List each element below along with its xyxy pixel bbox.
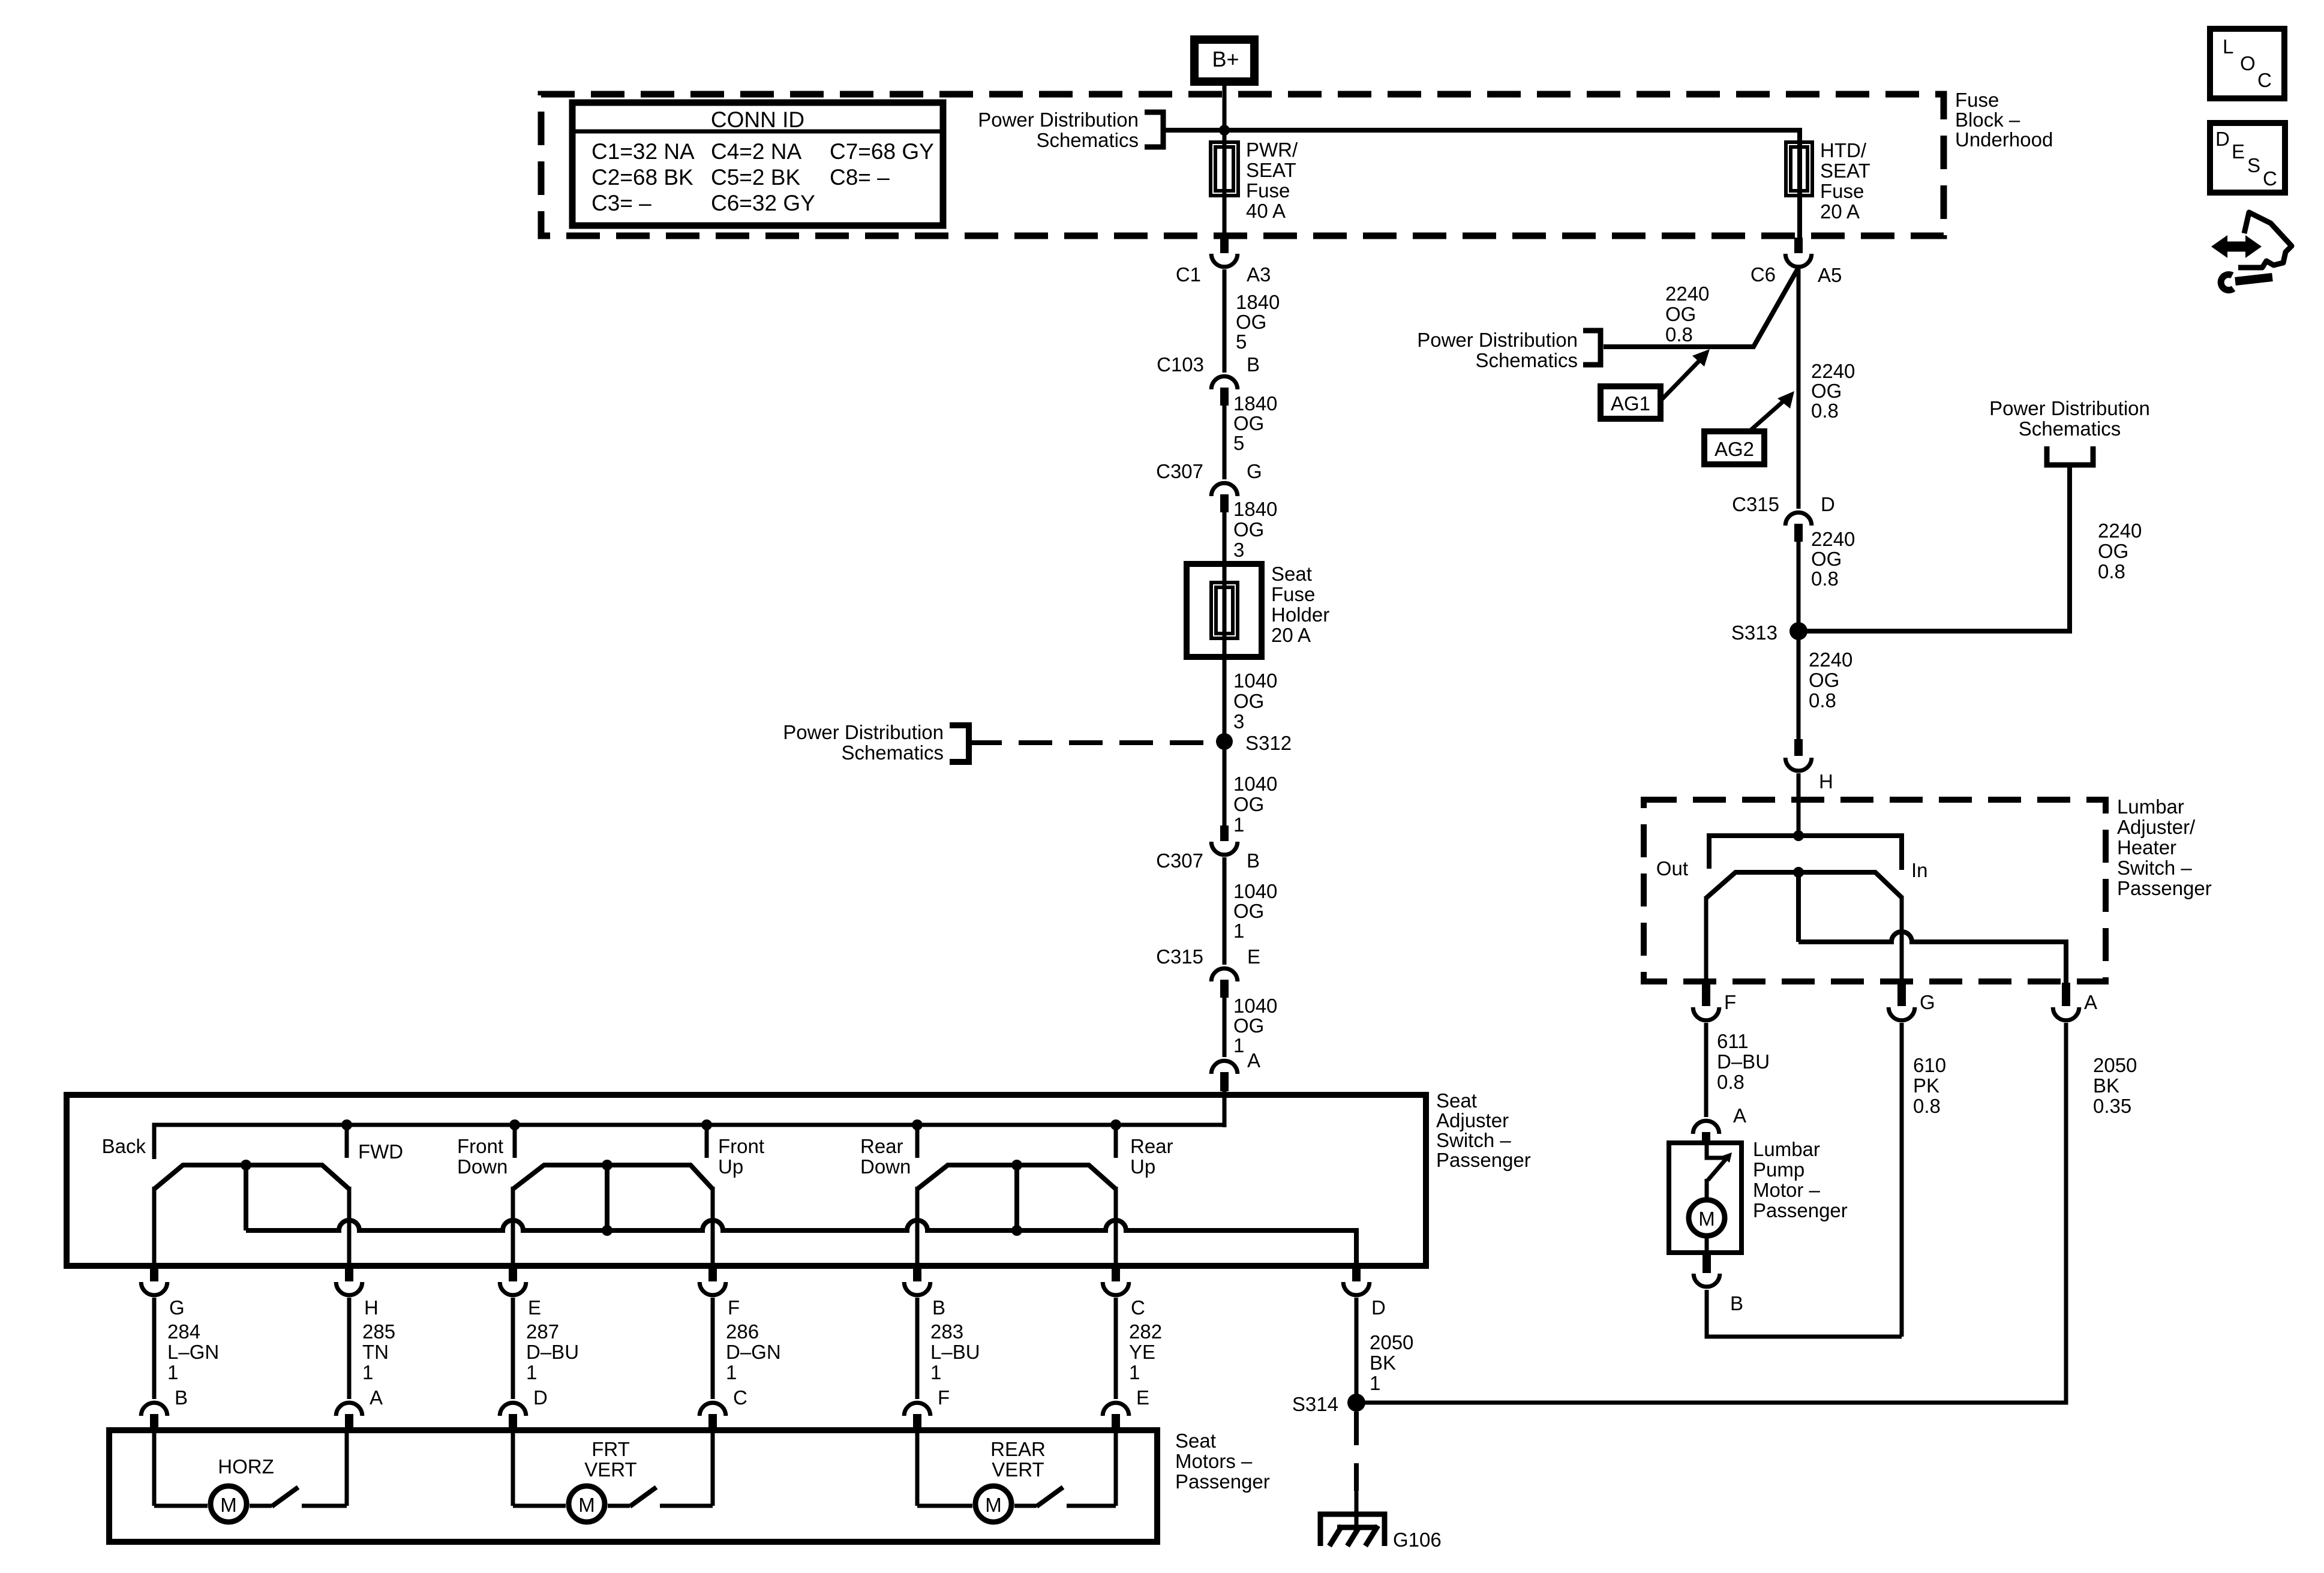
wire 286 D-GN 1 (711, 1298, 715, 1399)
svg-text:D–BU: D–BU (1717, 1050, 1770, 1073)
connector pin A below lumbar switch (2062, 983, 2070, 1006)
svg-text:Up: Up (718, 1155, 743, 1178)
motor HORZ (152, 1431, 157, 1506)
svg-text:C8= –: C8= – (830, 165, 890, 190)
svg-text:0.8: 0.8 (2098, 560, 2125, 583)
connector C307 pin G (1211, 483, 1238, 496)
wire branch S313 to power distribution (right) (1798, 466, 2070, 631)
connector C1 pin A3 (1220, 238, 1229, 253)
connector pin H below switch box (345, 1266, 353, 1281)
svg-text:40 A: 40 A (1246, 200, 1286, 222)
svg-text:Up: Up (1130, 1155, 1155, 1178)
contact stub Front Up (701, 1119, 712, 1130)
svg-text:0.8: 0.8 (1913, 1095, 1941, 1117)
wire 2050 BK 0.35 (A to S314) (1356, 1023, 2066, 1403)
svg-text:285: 285 (362, 1320, 395, 1343)
bracket Power Distribution Schematics (AG1) (1583, 331, 1601, 365)
svg-text:2050: 2050 (1370, 1331, 1413, 1353)
svg-text:20 A: 20 A (1820, 200, 1860, 223)
svg-text:Schematics: Schematics (1036, 129, 1139, 151)
svg-text:286: 286 (726, 1320, 759, 1343)
svg-text:TN: TN (362, 1341, 389, 1363)
wire 1840 OG 3 (C307 to fuse holder) (1223, 512, 1227, 744)
svg-text:OG: OG (1233, 690, 1264, 712)
svg-text:C6=32 GY: C6=32 GY (711, 191, 815, 215)
seat adjuster switch box (67, 1095, 1426, 1266)
wire bridge left leg to pin E (511, 1187, 515, 1266)
svg-text:C103: C103 (1157, 353, 1204, 376)
svg-text:Passenger: Passenger (1753, 1199, 1848, 1221)
svg-text:1: 1 (726, 1361, 737, 1383)
svg-text:OG: OG (2098, 540, 2128, 562)
svg-text:0.35: 0.35 (2093, 1095, 2131, 1117)
svg-text:C: C (733, 1386, 747, 1409)
connector C307 pin B (second) (1220, 825, 1229, 841)
svg-text:PWR/: PWR/ (1246, 139, 1298, 161)
wire 1040 OG 1 (S312 to C307) (1223, 742, 1227, 825)
svg-text:2240: 2240 (1811, 528, 1855, 550)
svg-text:0.8: 0.8 (1811, 568, 1839, 590)
svg-text:F: F (1724, 991, 1736, 1013)
svg-text:C7=68 GY: C7=68 GY (830, 139, 934, 164)
svg-text:5: 5 (1233, 432, 1244, 454)
connector pin C into seat motors box (699, 1403, 726, 1416)
svg-text:AG2: AG2 (1715, 438, 1754, 460)
wire feed from Power Distribution to HTD/SEAT fuse (1163, 130, 1800, 238)
wire 287 D-BU 1 (511, 1298, 515, 1399)
svg-text:284: 284 (167, 1320, 200, 1343)
svg-text:OG: OG (1233, 1014, 1264, 1037)
svg-text:C1: C1 (1176, 263, 1201, 286)
svg-text:A3: A3 (1247, 263, 1271, 286)
svg-text:B: B (1730, 1292, 1743, 1314)
connector pin F into seat motors box (904, 1403, 930, 1416)
seat motors box (109, 1430, 1157, 1542)
seat fuse holder box 20 A (1187, 564, 1262, 657)
wire bridge left leg to pin G (152, 1187, 157, 1266)
svg-text:Switch –: Switch – (1436, 1129, 1511, 1151)
wire 282 YE 1 (1114, 1298, 1118, 1399)
svg-text:G106: G106 (1393, 1529, 1442, 1551)
svg-text:C1=32 NA: C1=32 NA (591, 139, 695, 164)
connector pin C below switch box (1112, 1266, 1120, 1281)
wire 285 TN 1 (347, 1298, 352, 1399)
svg-text:Down: Down (860, 1155, 911, 1178)
svg-text:SEAT: SEAT (1820, 160, 1870, 182)
svg-text:Fuse: Fuse (1271, 583, 1315, 605)
bracket Power Distribution Schematics (S312) (950, 725, 969, 762)
svg-text:BK: BK (1370, 1352, 1396, 1374)
svg-text:H: H (364, 1296, 379, 1319)
svg-text:C2=68 BK: C2=68 BK (591, 165, 693, 190)
svg-text:1: 1 (1370, 1372, 1380, 1394)
svg-text:1: 1 (1233, 920, 1244, 942)
svg-text:C: C (2257, 69, 2272, 91)
svg-text:FWD: FWD (358, 1140, 403, 1163)
svg-text:PK: PK (1913, 1074, 1939, 1097)
wire 1040 OG 1 (C315 to switch pin A) (1223, 998, 1227, 1057)
svg-text:1040: 1040 (1233, 670, 1277, 692)
svg-text:Back: Back (102, 1135, 146, 1157)
connector pin F below lumbar switch (1702, 983, 1710, 1006)
svg-text:C4=2 NA: C4=2 NA (711, 139, 801, 164)
splice S312 (1216, 733, 1233, 750)
dashed wire to S312 (968, 740, 1218, 745)
svg-text:1: 1 (1129, 1361, 1140, 1383)
svg-text:REAR: REAR (990, 1438, 1046, 1460)
bracket Power Distribution Schematics (right) (2047, 446, 2093, 465)
svg-text:S314: S314 (1292, 1393, 1338, 1415)
svg-text:2050: 2050 (2093, 1054, 2137, 1076)
svg-text:OG: OG (1233, 900, 1264, 922)
switch blade REAR VERT (1037, 1487, 1063, 1506)
svg-text:VERT: VERT (584, 1458, 636, 1481)
wire A pin to feed bus (1223, 1091, 1227, 1127)
lumbar adjuster/heater switch dashed box (1644, 800, 2106, 981)
svg-text:1: 1 (167, 1361, 178, 1383)
svg-text:Adjuster: Adjuster (1436, 1109, 1509, 1131)
svg-text:C: C (1131, 1296, 1145, 1319)
svg-text:H: H (1819, 770, 1833, 792)
svg-text:2240: 2240 (1811, 360, 1855, 382)
wire 284 L-GN 1 (152, 1298, 157, 1399)
svg-text:C307: C307 (1156, 460, 1203, 482)
svg-text:A: A (370, 1386, 383, 1409)
svg-text:5: 5 (1236, 331, 1247, 353)
svg-text:L–BU: L–BU (930, 1341, 980, 1363)
svg-text:AG1: AG1 (1611, 392, 1650, 415)
wire 2240 OG 0.8 (S313 to H) (1797, 631, 1801, 739)
svg-text:F: F (728, 1296, 740, 1319)
wire 611 D-BU 0.8 (F to lumbar pump) (1704, 1023, 1709, 1117)
contact stub Rear Down (912, 1119, 923, 1130)
svg-text:C: C (2263, 167, 2277, 190)
svg-text:1: 1 (1233, 1034, 1244, 1056)
svg-text:C315: C315 (1156, 945, 1203, 968)
wire 2240 OG 0.8 (C315 to S313) (1797, 542, 1801, 631)
connector C6 pin A5 (1794, 238, 1803, 253)
svg-text:Power Distribution: Power Distribution (1989, 397, 2150, 419)
contact stub Front Down (509, 1119, 520, 1130)
wire bridge tap to output (1796, 872, 1801, 942)
wire fixed contacts Out/In (1709, 836, 1902, 870)
jumper harness icon (2223, 242, 2250, 252)
svg-text:D: D (1371, 1296, 1386, 1319)
svg-text:1840: 1840 (1236, 291, 1280, 313)
wire 610 PK 0.8 (G to motor return) (1900, 1023, 1904, 1337)
svg-text:3: 3 (1233, 710, 1244, 733)
svg-text:0.8: 0.8 (1811, 400, 1839, 422)
wire 2050 BK 1 (D to S314) (1355, 1298, 1359, 1403)
table CONN ID (572, 103, 943, 226)
contact stub Rear Up (1110, 1119, 1121, 1130)
svg-text:Power Distribution: Power Distribution (978, 109, 1139, 131)
svg-text:G: G (169, 1296, 185, 1319)
svg-text:Front: Front (457, 1135, 503, 1157)
svg-text:OG: OG (1233, 518, 1264, 541)
svg-text:1: 1 (362, 1361, 373, 1383)
svg-text:Out: Out (1656, 857, 1688, 879)
svg-text:E: E (528, 1296, 541, 1319)
svg-text:S: S (2247, 154, 2260, 176)
wire bridge left leg to pin B (915, 1187, 920, 1266)
wire common return to pin D with hops (246, 1220, 1356, 1266)
svg-text:FRT: FRT (591, 1438, 630, 1460)
dashed wire S314 to ground (1354, 1412, 1359, 1491)
svg-text:2240: 2240 (1665, 283, 1709, 305)
svg-text:3: 3 (1233, 539, 1244, 561)
wire branch to AG1 power distribution (1604, 268, 1798, 347)
svg-text:B: B (1247, 849, 1260, 872)
svg-text:1040: 1040 (1233, 995, 1277, 1017)
wire feed bus inside switch (154, 1125, 1224, 1159)
svg-text:2240: 2240 (1809, 649, 1852, 671)
splice S314 (1347, 1394, 1365, 1412)
svg-text:Rear: Rear (860, 1135, 903, 1157)
svg-text:E: E (1136, 1386, 1149, 1409)
wire 1040 OG 1 (C307 to C315) (1223, 857, 1227, 965)
svg-text:Power Distribution: Power Distribution (1417, 329, 1578, 351)
svg-text:287: 287 (526, 1320, 559, 1343)
svg-text:D–BU: D–BU (526, 1341, 579, 1363)
svg-text:G: G (1247, 460, 1262, 482)
contact stub FWD (341, 1119, 352, 1130)
fuse block dashed box Fuse Block - Underhood (541, 94, 1944, 236)
connector pin E below switch box (509, 1266, 517, 1281)
connector pin F below switch box (708, 1266, 717, 1281)
svg-text:Passenger: Passenger (1436, 1149, 1531, 1171)
svg-text:1: 1 (930, 1361, 941, 1383)
svg-text:OG: OG (1811, 380, 1842, 402)
connector C315 pin D (1785, 512, 1812, 526)
svg-text:OG: OG (1236, 311, 1266, 333)
connector pin G below switch box (150, 1266, 158, 1281)
svg-text:C315: C315 (1732, 493, 1779, 515)
switch inside lumbar pump motor (1707, 1145, 1724, 1158)
svg-text:0.8: 0.8 (1717, 1071, 1744, 1093)
callout AG2 (1704, 431, 1764, 464)
svg-text:C5=2 BK: C5=2 BK (711, 165, 800, 190)
wire H to switch common (1797, 773, 1801, 838)
connector C315 pin E (1211, 968, 1238, 981)
svg-text:Lumbar: Lumbar (1753, 1138, 1820, 1160)
switch bridge REAR VERT (Rear Down/Rear Up) (917, 1165, 1116, 1189)
svg-text:282: 282 (1129, 1320, 1162, 1343)
wire bridge right leg to pin F (711, 1187, 715, 1266)
svg-text:D: D (1821, 493, 1835, 515)
svg-text:Lumbar: Lumbar (2117, 795, 2184, 818)
svg-text:E: E (2232, 140, 2245, 163)
wire 2240 OG 0.8 (C6 to C315) (1797, 268, 1801, 509)
svg-text:M: M (1698, 1208, 1715, 1230)
connector pin B into seat motors box (141, 1403, 167, 1416)
svg-text:SEAT: SEAT (1246, 159, 1296, 181)
svg-text:HTD/: HTD/ (1820, 139, 1867, 161)
svg-text:Seat: Seat (1436, 1089, 1477, 1112)
arrow AG2 (1749, 400, 1785, 431)
wire bridge right leg to pin C (1114, 1187, 1118, 1266)
switch bridge HORZ (Back/FWD) (154, 1165, 349, 1189)
connector pin A into seat motors box (336, 1403, 362, 1416)
svg-text:B+: B+ (1212, 47, 1239, 71)
svg-text:A: A (2084, 991, 2097, 1013)
svg-text:1040: 1040 (1233, 880, 1277, 902)
svg-text:Rear: Rear (1130, 1135, 1173, 1157)
switch blade HORZ (272, 1487, 298, 1506)
svg-text:VERT: VERT (992, 1458, 1044, 1481)
svg-text:Heater: Heater (2117, 836, 2176, 858)
battery terminal B+ (1194, 40, 1254, 82)
connector pin A into seat adjuster switch (1211, 1061, 1238, 1074)
connector pin G below lumbar switch (1897, 983, 1906, 1006)
svg-text:OG: OG (1811, 548, 1842, 570)
lumbar pump motor box (1669, 1143, 1742, 1253)
connector pin D into seat motors box (500, 1403, 526, 1416)
svg-text:Motors –: Motors – (1175, 1450, 1253, 1472)
svg-text:Holder: Holder (1271, 604, 1329, 626)
connector pin B below lumbar pump motor (1703, 1253, 1711, 1273)
connector pin D below switch box (1352, 1266, 1361, 1281)
svg-text:Passenger: Passenger (1175, 1470, 1270, 1493)
motor M lumbar pump (1705, 1179, 1709, 1200)
svg-text:Switch –: Switch – (2117, 857, 2192, 879)
callout AG1 (1601, 386, 1661, 419)
svg-text:D: D (2215, 128, 2230, 150)
svg-text:Power Distribution: Power Distribution (783, 721, 944, 743)
svg-text:611: 611 (1717, 1030, 1749, 1052)
svg-text:2240: 2240 (2098, 520, 2142, 542)
svg-text:Fuse: Fuse (1955, 89, 1999, 111)
svg-text:1840: 1840 (1233, 392, 1277, 415)
svg-text:Schematics: Schematics (841, 742, 944, 764)
svg-text:Seat: Seat (1175, 1430, 1216, 1452)
svg-text:E: E (1247, 945, 1260, 968)
svg-text:B: B (175, 1386, 188, 1409)
svg-text:C3= –: C3= – (591, 191, 651, 215)
svg-text:O: O (2240, 52, 2256, 74)
svg-text:CONN ID: CONN ID (711, 107, 804, 132)
svg-text:OG: OG (1809, 669, 1839, 691)
svg-text:G: G (1920, 991, 1935, 1013)
svg-text:Block –: Block – (1955, 109, 2020, 131)
wire bridge right leg to pin G (1900, 896, 1904, 983)
svg-text:HORZ: HORZ (218, 1455, 274, 1478)
svg-text:A: A (1733, 1104, 1746, 1127)
wrench icon (2235, 277, 2272, 281)
wire bridge left leg to pin F (1704, 896, 1709, 983)
svg-text:L: L (2223, 35, 2233, 58)
switch bridge FRT VERT (Front Down/Front Up) (513, 1165, 713, 1189)
splice S313 (1789, 622, 1807, 640)
svg-text:A: A (1247, 1049, 1260, 1071)
switch bridge lumbar (1706, 872, 1902, 898)
svg-text:1: 1 (526, 1361, 537, 1383)
switch blade FRT VERT (630, 1487, 656, 1506)
wire B+ to PWR/SEAT fuse (1223, 82, 1227, 238)
svg-text:YE: YE (1129, 1341, 1155, 1363)
svg-text:Fuse: Fuse (1820, 180, 1864, 202)
svg-text:D–GN: D–GN (726, 1341, 781, 1363)
wire 1840 OG 5 (C1 to C103) (1223, 269, 1227, 373)
arrow AG1 (1661, 360, 1700, 401)
node switch common junction (1793, 830, 1804, 841)
svg-text:0.8: 0.8 (1665, 323, 1693, 346)
ground G106 (1320, 1514, 1385, 1546)
svg-text:Seat: Seat (1271, 563, 1312, 585)
connector pin E into seat motors box (1103, 1403, 1129, 1416)
wire 283 L-BU 1 (915, 1298, 920, 1399)
wire B to motor return (1707, 1290, 1902, 1337)
svg-text:Schematics: Schematics (2019, 418, 2121, 440)
LOC box icon (2210, 29, 2284, 98)
fuse PWR/SEAT Fuse 40 A (1211, 142, 1238, 196)
svg-text:610: 610 (1913, 1054, 1946, 1076)
svg-text:In: In (1911, 859, 1928, 881)
wire bridge right leg to pin H (347, 1187, 352, 1266)
svg-text:D: D (533, 1386, 548, 1409)
svg-text:1040: 1040 (1233, 773, 1277, 795)
svg-text:Adjuster/: Adjuster/ (2117, 816, 2196, 838)
svg-text:OG: OG (1665, 303, 1696, 325)
svg-text:Down: Down (457, 1155, 508, 1178)
fuse HTD/SEAT Fuse 20 A (1786, 142, 1812, 196)
svg-text:Motor –: Motor – (1753, 1179, 1821, 1201)
wire 1840 OG 5 (C103 to C307) (1223, 406, 1227, 479)
svg-text:1840: 1840 (1233, 498, 1277, 520)
svg-text:Pump: Pump (1753, 1158, 1804, 1181)
svg-text:20 A: 20 A (1271, 624, 1311, 646)
svg-text:L–GN: L–GN (167, 1341, 219, 1363)
svg-text:0.8: 0.8 (1809, 689, 1836, 712)
svg-text:Schematics: Schematics (1475, 349, 1578, 371)
connector pin B below switch box (913, 1266, 921, 1281)
svg-text:A5: A5 (1818, 264, 1842, 286)
svg-text:S313: S313 (1731, 622, 1777, 644)
svg-text:Fuse: Fuse (1246, 179, 1290, 202)
connector pin A into lumbar pump motor (1693, 1121, 1719, 1134)
motor REAR VERT (915, 1431, 920, 1506)
svg-text:C6: C6 (1750, 263, 1776, 286)
svg-text:M: M (578, 1494, 595, 1516)
svg-text:M: M (985, 1494, 1002, 1516)
svg-text:Underhood: Underhood (1955, 128, 2053, 151)
svg-text:283: 283 (930, 1320, 963, 1343)
motor FRT VERT (511, 1431, 515, 1506)
svg-text:1: 1 (1233, 813, 1244, 836)
svg-text:F: F (938, 1386, 950, 1409)
svg-text:OG: OG (1233, 793, 1264, 815)
wire tap to pin A with hop (1798, 932, 2066, 983)
svg-text:B: B (932, 1296, 945, 1319)
svg-text:BK: BK (2093, 1074, 2119, 1097)
bracket Power Distribution Schematics (top) (1145, 112, 1163, 147)
connector pin H into lumbar switch (1794, 739, 1803, 756)
svg-text:OG: OG (1233, 412, 1264, 434)
svg-text:Front: Front (718, 1135, 764, 1157)
node junction on B+ feed (1219, 125, 1230, 136)
svg-text:M: M (220, 1494, 237, 1516)
svg-text:B: B (1247, 353, 1260, 376)
svg-text:S312: S312 (1245, 732, 1292, 754)
svg-text:C307: C307 (1156, 849, 1203, 872)
DESC box icon (2210, 123, 2285, 193)
connector C103 pin B (1211, 376, 1238, 389)
svg-text:Passenger: Passenger (2117, 877, 2212, 899)
